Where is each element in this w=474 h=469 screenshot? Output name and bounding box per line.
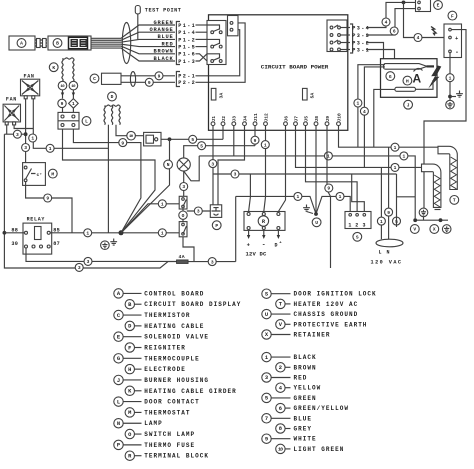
svg-text:3: 3 [87,259,90,265]
node 1 [158,229,166,237]
legend D HEATING CABLE [125,321,134,330]
legend K HEATING CABLE GIRDER [125,386,134,395]
fuse 5A on board [303,88,308,100]
ground U ground [303,205,310,212]
wire J2 drop [222,125,224,139]
svg-text:U: U [315,220,318,226]
cable ellipse [130,72,135,87]
svg-text:3: 3 [197,209,200,215]
svg-text:9: 9 [387,210,390,216]
node 1 [324,152,332,160]
svg-text:J10: J10 [336,113,342,122]
wire P3-2 down [366,43,384,59]
wire F bottom to ground [449,53,451,100]
node O [179,211,187,219]
node 9 [155,72,163,80]
svg-text:YELLOW: YELLOW [294,385,322,392]
junction top junction [402,1,406,5]
node 1 [354,99,362,107]
svg-text:1: 1 [161,201,164,207]
legend 6 GREEN/YELLOW [276,403,285,412]
wire L left lead [63,129,156,233]
junction cutout junction [168,137,172,141]
legend B CIRCUIT BOARD DISPLAY [125,300,134,309]
node 3 [231,170,239,178]
P1 bracket [176,22,180,65]
node 1 [446,74,454,82]
svg-text:BURNER HOUSING: BURNER HOUSING [144,377,209,384]
wire fan2 left lead [6,125,8,134]
wire stub [307,212,314,214]
wire branch to terminal block [249,174,251,212]
wire run down right [396,174,398,227]
svg-text:3: 3 [265,375,268,381]
wire run to V junction [199,156,415,218]
svg-text:1: 1 [380,219,383,225]
svg-text:1: 1 [357,101,360,107]
node 1 [391,163,399,171]
solenoid valve E box [416,0,431,12]
node D [108,92,117,101]
svg-text:12V DC: 12V DC [246,251,268,258]
wire switch link [182,209,184,222]
legend H ELECTRODE [125,364,134,373]
wire J4 drop to thermo fuse [218,125,245,204]
control board A box [9,36,35,50]
svg-text:9: 9 [148,80,151,86]
wire BLUE wire [91,39,175,42]
junction fan junction [24,132,28,136]
svg-text:1: 1 [86,230,89,236]
svg-text:PROTECTIVE EARTH: PROTECTIVE EARTH [294,321,368,328]
svg-text:RED: RED [162,41,174,47]
wire thermocouple feed 1 [358,65,385,148]
wire rail to relay 88 [4,232,24,234]
svg-text:BLUE: BLUE [294,415,312,422]
svg-text:ELECTRODE: ELECTRODE [144,366,186,373]
ground relay ground [110,239,117,246]
wire bracket to V riser [397,196,416,198]
board pin J1 [211,122,215,126]
node 4 [414,34,422,42]
svg-text:E: E [437,3,440,9]
door ignition lock S block [345,212,371,229]
lamp N [177,158,190,171]
wire thermistor wire 2 [121,81,175,83]
wire P1-1 stub [196,24,208,26]
svg-text:P1-4: P1-4 [178,30,196,36]
7-segment display [69,37,88,48]
svg-text:P3-3: P3-3 [352,33,370,39]
svg-text:X: X [433,227,436,233]
legend 5 GREEN [262,393,271,402]
svg-text:P3-1: P3-1 [352,47,370,53]
wire P3-3 to E [366,9,416,35]
arrow contacts [63,90,74,99]
node G [386,72,395,81]
svg-text:P1-3: P1-3 [178,59,196,65]
svg-text:J8: J8 [314,116,320,122]
node 3 [209,160,217,168]
wire fan junction to rail [4,133,25,135]
board pin J7 [294,122,298,126]
svg-text:1: 1 [394,165,397,171]
wire J5 to S pin2 [306,125,358,211]
svg-text:P: P [117,443,120,449]
board pin J3 [232,122,236,126]
svg-text:J9: J9 [325,116,331,122]
svg-text:3: 3 [211,161,214,167]
svg-text:N: N [387,250,390,256]
wire S pin1 up [316,196,350,214]
svg-text:T: T [453,198,456,204]
junction big junction [119,230,124,235]
legend F REIGNITER [125,343,134,352]
svg-text:H: H [128,367,131,373]
svg-text:87: 87 [53,241,60,247]
svg-text:-: - [455,49,459,56]
P1 socket row 4 [211,45,214,48]
junction V junction [413,218,417,222]
svg-text:THERMOCOUPLE: THERMOCOUPLE [144,355,199,362]
svg-text:9: 9 [158,73,161,79]
svg-text:3: 3 [234,172,237,178]
svg-text:THERMO FUSE: THERMO FUSE [144,442,195,449]
legend G THERMOCOUPLE [114,354,123,363]
node N [164,160,173,169]
svg-text:A: A [20,41,23,47]
svg-text:9: 9 [327,186,330,192]
heating cable D symbol [104,106,105,125]
legend L DOOR CONTACT [114,397,123,406]
wire P3-1 down [366,50,395,59]
svg-text:P3-4: P3-4 [352,25,370,31]
svg-text:5: 5 [191,137,194,143]
svg-text:5: 5 [265,396,268,402]
P1 socket row 3 [207,39,220,44]
svg-text:1: 1 [297,194,300,200]
svg-text:J4: J4 [242,116,248,122]
svg-text:THERMISTOR: THERMISTOR [144,312,190,319]
wire J12 drop to terminal block [264,125,266,211]
control board A outline [209,15,348,131]
node E [434,1,443,10]
thermocouple G symbol [384,64,428,70]
svg-text:C: C [93,76,96,82]
legend 4 YELLOW [276,383,285,392]
node 10 [127,131,136,140]
svg-text:L: L [85,119,88,125]
svg-text:TEST POINT: TEST POINT [145,8,182,14]
node M [48,169,57,178]
svg-text:CHASSIS GROUND: CHASSIS GROUND [294,311,359,318]
wire P3 pin stub [341,42,351,44]
thermostat M box [23,163,46,186]
ground F ground [456,91,463,98]
node 4 [382,18,390,26]
svg-text:FAN: FAN [24,74,35,80]
node 9 [385,208,393,216]
svg-text:J7: J7 [293,116,299,122]
node 3 [22,144,30,152]
reigniter F box [444,24,462,58]
svg-text:J: J [117,378,120,384]
svg-text:1: 1 [265,355,268,361]
wire P3 pin stub [341,34,351,36]
fuse 3A on board [211,88,216,100]
svg-text:O: O [182,213,185,219]
wire heater run 1 [339,125,439,147]
node 3 [13,130,21,138]
wire J1 branch long run [213,173,397,175]
svg-text:P1-1: P1-1 [178,23,196,29]
P1 socket row 6 [211,60,214,63]
svg-text:P: P [215,223,218,229]
legend 9 WHITE [262,434,271,443]
svg-text:3: 3 [363,222,366,228]
wire S pin3 up [352,174,365,212]
wire to door contact [63,108,74,113]
svg-text:WHITE: WHITE [294,436,317,443]
arrow terminal [248,230,250,236]
wire J6 drop to terminal block [278,125,285,211]
legend M THERMOSTAT [125,408,134,417]
wire electrode feed [374,89,395,147]
wire mid riser [235,196,237,261]
svg-text:G: G [389,74,392,80]
wire fan1 left lead [25,99,27,163]
arrow terminal [277,230,279,236]
board pin J2 [221,122,225,126]
board pin J12 [264,122,268,126]
svg-text:HEATING CABLE: HEATING CABLE [144,323,204,330]
node 1 [84,229,92,237]
svg-text:U: U [265,312,268,318]
fan 2 [3,104,20,122]
node 1 [336,192,344,200]
wire GREEN wire [91,25,175,38]
svg-text:SOLENOID VALVE: SOLENOID VALVE [144,334,209,341]
svg-text:BLUE: BLUE [158,34,174,40]
cable bundle ellipse [122,23,130,64]
wire U feed left [236,196,316,214]
P3 bracket [350,24,353,53]
node U [312,218,321,227]
P1 socket on board [207,21,226,65]
wire P1-6 stub [196,54,208,61]
svg-text:RED: RED [294,375,308,382]
svg-text:GREEN/YELLOW: GREEN/YELLOW [294,405,349,412]
wire branch to reigniter + [404,2,445,37]
chassis ground earth mid [419,208,428,217]
svg-text:4: 4 [417,35,420,41]
legend O SWITCH LAMP [125,429,134,438]
svg-text:M: M [51,171,54,177]
thermal cutout box [144,132,161,146]
circuit board display B box [48,36,91,50]
svg-text:J5: J5 [303,116,309,122]
junction F ground junction [448,95,452,99]
node 1 [29,134,37,142]
svg-text:6: 6 [393,29,396,35]
junction U junction [314,212,318,216]
node 9 [251,136,259,144]
wire switch1 left [121,204,179,233]
svg-text:TERMINAL BLOCK: TERMINAL BLOCK [144,453,209,460]
wire J11 drop [254,125,256,145]
svg-text:CONTROL BOARD: CONTROL BOARD [144,290,204,297]
wire heater run 2 [296,125,422,167]
svg-text:J6: J6 [283,116,289,122]
node 1 [294,192,302,200]
wire fan1 right lead [33,99,108,149]
test point symbol [135,6,140,14]
wire D right lead [116,125,144,136]
legend A CONTROL BOARD [114,289,123,298]
wire relay 30 down [26,248,178,261]
svg-text:FAN: FAN [6,97,17,103]
node A [17,39,26,48]
svg-text:B: B [56,41,59,47]
wire J9 drop to rail [327,125,331,268]
svg-text:P1-6: P1-6 [178,52,196,58]
node 4 [360,107,368,115]
legend 2 BROWN [276,363,285,372]
wire thermocouple feed 2 [364,67,385,167]
svg-text:3: 3 [211,259,214,265]
node 6 [390,27,398,35]
wire P1-3 stub [196,54,208,61]
wire thermostat out [26,182,72,233]
node S [353,232,362,241]
svg-text:1: 1 [264,142,267,148]
wire lamp to switch [183,171,185,196]
svg-text:P1-2: P1-2 [178,37,196,43]
svg-text:c°: c° [37,172,43,178]
svg-text:SWITCH LAMP: SWITCH LAMP [144,431,195,438]
thermo fuse P box [210,205,221,218]
svg-text:30: 30 [11,241,18,247]
svg-text:L: L [117,399,120,405]
svg-text:P2-2: P2-2 [178,80,196,86]
svg-text:K: K [52,65,55,71]
legend 7 BLUE [262,414,271,423]
node B [53,39,62,48]
svg-text:1: 1 [449,75,452,81]
svg-text:9: 9 [61,101,64,107]
svg-text:1: 1 [72,101,75,107]
board pin J9 [325,122,329,126]
node 3 [75,263,83,271]
burner housing J box [381,59,438,98]
svg-text:9: 9 [254,138,257,144]
svg-text:D: D [111,94,114,100]
svg-text:G: G [117,356,120,362]
P1 socket row 1 [207,25,220,30]
svg-text:RETAINER: RETAINER [294,332,331,339]
node 9 [145,78,153,86]
svg-text:5A: 5A [310,93,316,99]
legend N LAMP [114,419,123,428]
wire BROWN wire [91,46,175,54]
legend V PROTECTIVE EARTH [276,320,285,329]
wire P1-2 stub [196,38,208,40]
svg-text:L: L [379,250,382,256]
wire junction down ray [121,139,170,233]
node T [450,196,459,205]
node C [90,74,99,83]
svg-text:1: 1 [339,194,342,200]
wire stub [423,217,425,221]
svg-text:4: 4 [363,109,366,115]
node 9 [325,184,333,192]
P2 socket on board [228,16,239,36]
svg-text:1: 1 [31,136,34,142]
legend S DOOR IGNITION LOCK [262,289,271,298]
svg-text:BLACK: BLACK [154,56,174,62]
svg-text:3: 3 [16,132,19,138]
wire L right lead [73,129,140,233]
wire BLACK wire [91,48,175,61]
svg-text:A: A [413,72,422,86]
svg-text:N: N [167,162,170,168]
node 9 [119,139,127,147]
legend 3 RED [262,373,271,382]
svg-text:H: H [406,78,409,84]
heating cable girder K symbol [62,59,63,82]
svg-text:BROWN: BROWN [154,49,174,55]
svg-text:J3: J3 [232,116,238,122]
legend U CHASSIS GROUND [262,309,271,318]
node R [258,216,268,226]
board pin J5 [304,122,308,126]
wire lamp top [184,146,255,158]
wire relay 85 to junction [50,232,179,234]
door contact L block [58,112,79,129]
legend X RETAINER [262,330,271,339]
node 5 [198,142,206,150]
wire stub [450,96,456,98]
svg-text:8: 8 [279,426,282,432]
board pin J4 [243,122,247,126]
120 VAC cable ellipse [376,239,403,247]
svg-text:9: 9 [121,140,124,146]
svg-text:M: M [128,410,131,416]
legend J BURNER HOUSING [114,375,123,384]
chassis ground U chassis [446,100,455,109]
svg-text:J12: J12 [263,113,269,122]
svg-text:D: D [275,243,278,249]
node 9 [44,194,52,202]
svg-text:DOOR IGNITION LOCK: DOOR IGNITION LOCK [294,291,377,298]
svg-text:DOOR CONTACT: DOOR CONTACT [144,399,199,406]
svg-text:P1-5: P1-5 [178,45,196,51]
switch lamp O upper switch [179,196,187,209]
wire V-X wire [415,219,448,221]
wire P1-4 stub [196,31,208,33]
svg-text:J1: J1 [211,116,217,122]
svg-text:4: 4 [385,20,388,26]
P1 socket row 5 [207,54,220,59]
wire P3 pin stub [341,27,351,29]
legend P THERMO FUSE [114,440,123,449]
wire ORANGE wire [91,32,175,40]
svg-text:1: 1 [49,146,52,152]
svg-text:F: F [451,13,454,19]
svg-text:GREEN: GREEN [154,20,174,26]
arrow terminal [263,230,265,236]
wire P2-2 stub [196,23,246,82]
